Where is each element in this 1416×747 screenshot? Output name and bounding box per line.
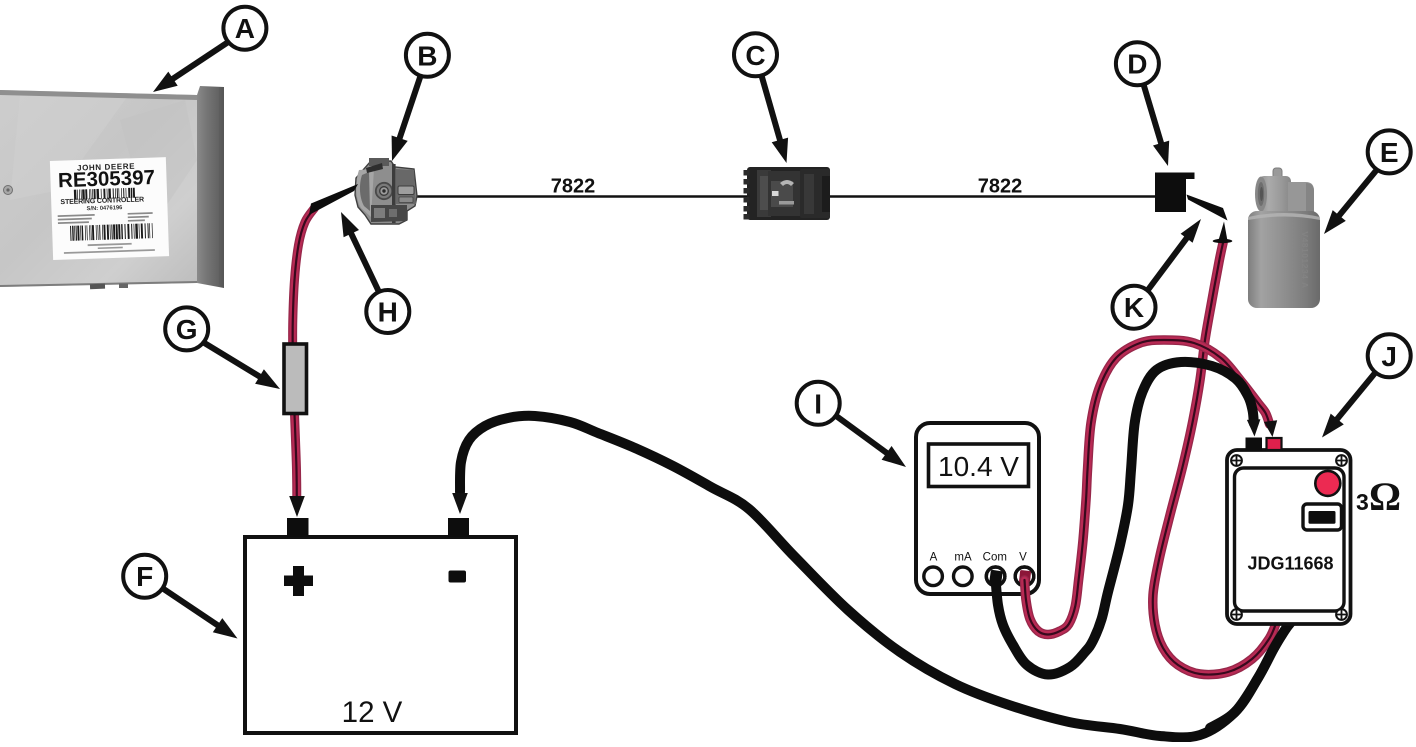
short lead from D (K) <box>1187 195 1228 221</box>
svg-text:A: A <box>930 552 938 564</box>
harness wire B to D <box>414 195 1157 198</box>
toggle switch <box>1303 504 1342 530</box>
battery + terminal <box>287 518 309 537</box>
svg-text:V48101234 A: V48101234 A <box>1300 231 1310 288</box>
svg-text:JDG11668: JDG11668 <box>1247 554 1333 574</box>
svg-text:G: G <box>176 314 198 345</box>
svg-text:D: D <box>1127 49 1147 80</box>
callout B <box>406 34 449 77</box>
battery 12V (F) <box>245 518 516 733</box>
controller module A (RE305397 photo) <box>0 86 224 289</box>
red test lead from harness junction K down to JDG11668 <box>1153 243 1279 675</box>
red power lead from connector B to battery + <box>293 208 315 498</box>
callout F <box>123 555 166 598</box>
svg-text:RE305397: RE305397 <box>58 166 156 192</box>
svg-text:J: J <box>1381 341 1397 372</box>
svg-text:10.4 V: 10.4 V <box>938 451 1019 482</box>
svg-text:I: I <box>814 388 822 419</box>
JDG11668 resistance box (J) <box>1227 450 1351 624</box>
JDG11668 black terminal <box>1246 438 1263 451</box>
svg-text:B: B <box>417 40 437 71</box>
black probe segment at B junction (H) <box>309 184 358 215</box>
svg-text:Ω: Ω <box>1369 474 1401 519</box>
meter jacks <box>924 567 943 586</box>
callout H <box>366 290 409 333</box>
callout J <box>1368 334 1411 377</box>
red indicator lamp <box>1315 471 1340 496</box>
connector D <box>1155 173 1195 213</box>
svg-text:K: K <box>1124 292 1144 323</box>
svg-text:H: H <box>378 297 398 328</box>
probe arrowhead at K junction <box>1219 222 1228 240</box>
black lead: meter Com jack to JDG11668 black terminal <box>996 362 1254 675</box>
svg-text:Com: Com <box>983 552 1007 564</box>
battery - terminal <box>448 518 469 537</box>
callout G <box>165 307 208 350</box>
svg-text:S/N: 0476196: S/N: 0476196 <box>86 205 123 212</box>
svg-text:mA: mA <box>954 552 972 564</box>
svg-text:F: F <box>136 561 153 592</box>
callout E <box>1368 130 1411 173</box>
callout K <box>1113 286 1156 329</box>
svg-text:C: C <box>745 40 765 71</box>
red lead: meter V jack to JDG11668 red terminal <box>1025 340 1270 635</box>
callout A <box>223 7 266 50</box>
fuse holder G <box>284 344 307 414</box>
svg-text:7822: 7822 <box>978 176 1023 198</box>
multimeter (I) <box>916 423 1039 594</box>
controller label RE305397 <box>50 157 169 260</box>
svg-text:7822: 7822 <box>551 176 596 198</box>
JDG11668 red terminal <box>1267 438 1282 450</box>
svg-text:A: A <box>235 13 255 44</box>
black lead overlap below JDG11668 <box>1210 621 1292 728</box>
black lead: battery negative to JDG11668 bottom <box>460 416 1292 738</box>
solenoid valve E <box>1248 168 1320 308</box>
callout D <box>1116 42 1159 85</box>
connector B <box>355 158 417 224</box>
connector C <box>744 167 831 220</box>
svg-text:E: E <box>1380 137 1399 168</box>
svg-text:V: V <box>1019 552 1027 564</box>
plus symbol <box>284 566 313 596</box>
meter display 10.4 V <box>929 444 1029 487</box>
minus symbol <box>449 571 467 583</box>
svg-text:3: 3 <box>1356 489 1369 515</box>
callout I <box>797 382 840 425</box>
callout C <box>734 33 777 76</box>
svg-text:12 V: 12 V <box>342 696 403 729</box>
